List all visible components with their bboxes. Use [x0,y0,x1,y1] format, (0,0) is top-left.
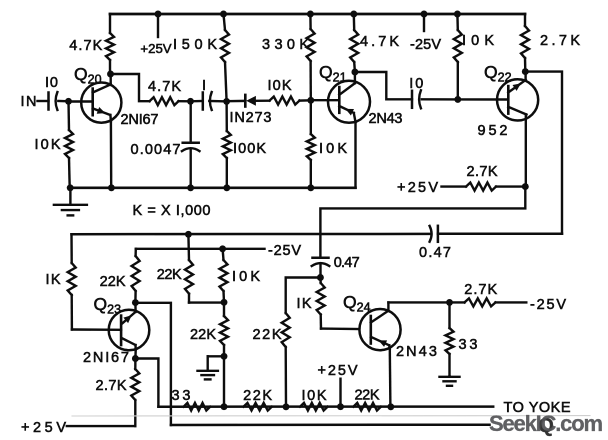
svg-text:2.7K: 2.7K [467,164,498,180]
wire Q22 bottom to 0.47 [320,187,525,258]
svg-text:+25V: +25V [140,41,171,56]
svg-text:22K: 22K [157,267,182,283]
power -25V tap on rail [421,11,428,18]
wire to 22K feedback [286,278,321,314]
resistor 33 (output) [184,403,211,411]
svg-text:I0: I0 [45,75,58,91]
power +25V stem (output) [339,379,341,407]
resistor 150K [224,14,226,30]
capacitor 0.0047 [189,101,191,142]
resistor 22K (output 2) [353,403,381,411]
ground (divider) [208,355,224,357]
svg-text:IK: IK [46,272,61,288]
svg-text:IN: IN [21,94,37,110]
transistor Q22 (952) [497,79,538,120]
node output-33 [221,403,228,410]
capacitor 0.47 (horizontal) [430,226,432,242]
resistor 10K (diode series) [270,97,300,105]
resistor 330K [309,14,312,29]
svg-text:IK: IK [297,296,312,312]
svg-text:0.0047: 0.0047 [131,142,181,158]
svg-text:0.47: 0.47 [334,255,360,271]
resistor 22K (divider lower) [223,302,225,316]
resistor 2.7K (Q22 emitter) [524,14,526,26]
wire stage2 rail left [72,233,431,236]
svg-text:I0K: I0K [35,137,61,153]
resistor 4.7K (Q21 collector load) [353,14,356,30]
svg-text:+25V: +25V [318,363,358,379]
wire bottom return line [171,423,490,426]
resistor 22K (Q23 emitter load) [134,249,137,256]
ground (input stage) [67,184,74,191]
wire divider link [189,301,224,303]
node 100K on rail [223,184,230,191]
wire +25V lead (Q23) [67,425,136,427]
svg-text:2.7K: 2.7K [540,33,580,49]
resistor 2.7K (+25V feed) [496,185,525,187]
svg-text:2NI67: 2NI67 [83,350,129,366]
power +25V tap on rail [155,11,162,18]
svg-text:I0: I0 [409,76,423,92]
resistor 100K [225,101,228,131]
node Q20 collector [107,71,114,78]
wire -25V sub-rail [136,248,265,250]
node rail-4.7K(Q21) [350,11,357,18]
wire 1K to Q24 base [321,327,359,330]
resistor 10K (input) [67,101,70,130]
node Q20 base [65,98,72,105]
node sub-rail 10K [219,245,226,252]
node emitter Q20 on rail [108,184,115,191]
wire output line [158,405,493,408]
node rail-330K [307,11,314,18]
resistor 10K (divider) [221,249,224,260]
svg-text:2NI67: 2NI67 [121,112,159,128]
transistor Q20 (2N167) [81,83,121,123]
ground (Q24) [448,375,450,378]
node 10K bias on rail [307,184,314,191]
node Q21 base [307,97,314,104]
svg-text:+25V: +25V [397,180,438,196]
svg-text:2N43: 2N43 [396,344,437,360]
node stage2 rail-22K [185,231,192,238]
resistor 33 (Q24 collector) [448,302,450,328]
resistor 10K (Q21 base bias) [310,100,312,134]
svg-text:I00K: I00K [233,141,266,157]
resistor 2.7K (Q23) [134,359,136,370]
capacitor 10 (input coupling) [47,93,50,110]
node 0.47-1K [317,274,324,281]
node 22K-ground [221,353,228,360]
transistor Q21 (2N43) [328,81,370,123]
svg-text:4.7K: 4.7K [360,34,399,50]
wire Q24 collector row [388,301,449,303]
node Q24 collector [446,299,453,306]
svg-text:22K: 22K [355,388,380,404]
capacitor 10 (interstage) [411,91,414,108]
node Q23 emitter [132,355,139,362]
resistor 2.7K (-25V feed) [450,301,465,303]
svg-text:2.7K: 2.7K [96,378,127,394]
transistor Q23 (2N167) [109,310,150,351]
wire cap10 to Q22 base [422,98,458,100]
node Q22 top [522,68,529,75]
resistor 22K (output 1) [243,403,271,411]
wire Q23 emitter jog [135,359,158,407]
wire cap1 to junction [209,100,226,103]
resistor 22K (divider upper) [187,234,190,260]
resistor 10K (output) [300,403,328,411]
svg-text:4.7K: 4.7K [69,38,102,54]
wire collector to coupling [111,74,150,101]
resistor 10K (Q22 base) [456,14,459,30]
wire cap to base node [58,100,68,103]
svg-text:I0K: I0K [302,388,327,404]
svg-text:I0K: I0K [268,78,292,94]
svg-text:22K: 22K [243,388,272,404]
node output +25V [337,403,344,410]
wire to Q22 base [458,98,509,100]
capacitor 1 (coupling) [202,93,205,110]
svg-text:0.47: 0.47 [419,245,451,261]
node 0.0047 on rail [187,184,194,191]
node Q22 base feed [454,96,461,103]
svg-text:952: 952 [478,123,508,139]
svg-text:I: I [202,78,206,94]
svg-text:22K: 22K [253,327,282,343]
resistor 4.7K (interstage) [150,97,179,105]
wire stage2 rail right [438,233,562,236]
wire Q22 top to right drop [525,72,562,234]
resistor 22K (feedback) [282,313,290,347]
svg-text:IN273: IN273 [230,110,272,126]
node coupling A [187,98,194,105]
wire Q21 collector to cap [355,72,412,99]
node rail-150K [220,11,227,18]
node output-22K [283,403,290,410]
svg-text:4.7K: 4.7K [148,79,181,95]
wire IN lead [38,100,49,102]
svg-text:SeekIC.com: SeekIC.com [489,411,603,436]
transistor Q24 (2N43) [359,309,400,350]
svg-text:K = X I,000: K = X I,000 [133,203,211,219]
wire divider to output line [223,356,225,406]
resistor 4.7K (Q20 collector load) [109,14,111,33]
node Q23 top [132,299,139,306]
node Q21 collector [351,69,358,76]
diode 1N273 [227,100,246,103]
node rail-10K(Q22) [454,11,461,18]
node diode junction [223,98,230,105]
svg-text:-25V: -25V [268,243,301,259]
capacitor 0.47 (vertical) [313,256,329,259]
svg-text:22K: 22K [100,274,126,290]
svg-text:2N43: 2N43 [369,111,403,127]
node output-Q24 [387,403,394,410]
scan fold line [72,415,590,417]
wire to node [179,100,191,103]
node Q22 bottom [522,183,529,190]
wire stage1 bottom rail [70,187,356,190]
resistor 1K (Q24 base) [319,278,322,284]
svg-text:2.7K: 2.7K [464,282,497,298]
resistor 1K (Q23 base feed) [70,234,73,263]
svg-text:-25V: -25V [410,37,441,53]
wire Q23 top to right drop [135,303,171,425]
node divider mid [221,299,228,306]
wire top supply rail [110,13,525,16]
svg-text:22K: 22K [190,327,216,343]
